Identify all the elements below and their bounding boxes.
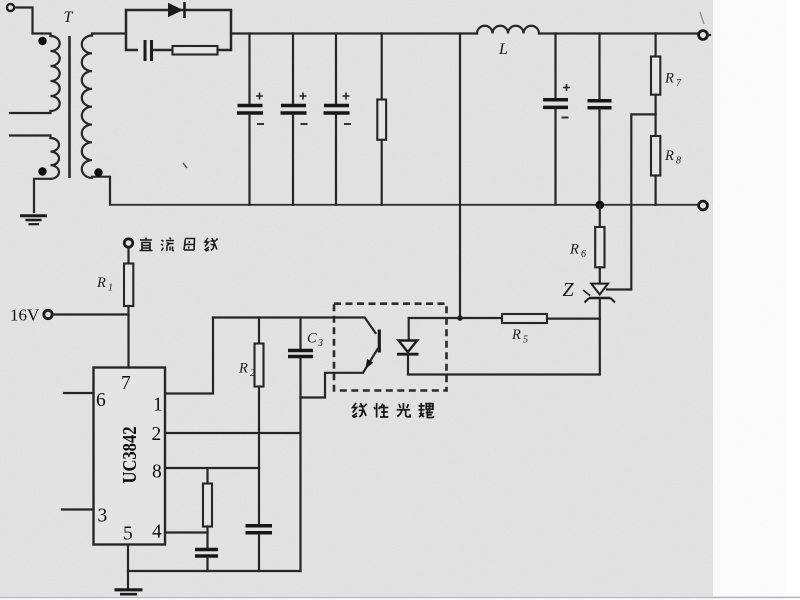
feedback wire from +V rail [459, 34, 461, 319]
resistor R6 [569, 205, 605, 284]
output capacitor 2 [588, 34, 612, 205]
label 线性光耦 (linear optocoupler) [352, 403, 433, 417]
svg-text:2: 2 [250, 368, 255, 379]
optocoupler LED wire bottom [409, 373, 600, 375]
pin 3 stub [62, 508, 94, 510]
线 [205, 238, 210, 251]
output capacitor (polarized) [543, 34, 570, 205]
shunt regulator Z [563, 279, 616, 375]
ground (left, below primary 2) [20, 216, 47, 225]
snubber resistor [173, 46, 218, 55]
直 [140, 238, 153, 251]
流 [161, 240, 164, 251]
svg-text:3: 3 [98, 506, 108, 527]
pin 6 stub [64, 392, 94, 394]
resistor R8 [651, 136, 681, 205]
pin4 wire [165, 531, 208, 533]
transformer secondary winding [82, 34, 126, 205]
svg-text:C: C [307, 331, 317, 347]
svg-text:UC3842: UC3842 [119, 427, 141, 484]
svg-text:T: T [64, 9, 74, 26]
16V terminal [10, 306, 129, 325]
stray mark near secondary [183, 163, 187, 168]
svg-text:7: 7 [121, 373, 131, 394]
IC ground rail [128, 545, 301, 572]
svg-text:1: 1 [153, 395, 163, 416]
svg-text:R: R [569, 242, 579, 258]
resistor R7 [651, 34, 682, 137]
filter capacitor C1 (polarized) [237, 34, 264, 205]
光 [397, 403, 410, 417]
svg-text:R: R [511, 327, 521, 343]
耦 [418, 403, 424, 417]
svg-text:2: 2 [152, 424, 162, 445]
polarity dot primary 1 [38, 37, 46, 45]
性 [374, 403, 380, 417]
snubber loop wires [126, 10, 231, 50]
svg-text:R: R [96, 275, 106, 291]
transformer primary winding 1 [10, 34, 60, 114]
snubber capacitor [138, 40, 152, 61]
transformer primary winding 2 [10, 136, 59, 213]
线 [352, 403, 357, 417]
snubber diode [168, 2, 185, 18]
svg-text:5: 5 [523, 335, 528, 346]
optocoupler phototransistor [213, 318, 379, 398]
pin2 wire [165, 432, 301, 434]
terminal AC input top-left [7, 4, 14, 11]
svg-text:6: 6 [96, 390, 106, 411]
svg-text:3: 3 [317, 338, 323, 349]
polarity dot primary 2 [38, 167, 46, 175]
resistor R2 [238, 318, 264, 525]
svg-text:5: 5 [123, 524, 133, 545]
svg-text:8: 8 [152, 462, 162, 483]
pin8 wire [165, 467, 259, 469]
svg-text:Z: Z [563, 279, 575, 301]
top rail: inductor to output terminal [539, 32, 699, 34]
svg-text:R: R [664, 148, 674, 164]
bottom rail (secondary return) [110, 204, 699, 206]
transformer core [68, 36, 71, 178]
svg-text:4: 4 [152, 522, 162, 543]
inductor L [477, 26, 539, 58]
timing capacitor CT [195, 550, 218, 572]
resistor R5 [409, 314, 600, 346]
polarity dot secondary [94, 168, 102, 176]
output terminal - [699, 201, 708, 210]
svg-text:6: 6 [581, 249, 586, 260]
svg-text:R: R [238, 361, 248, 377]
top rail: snubber to inductor [231, 32, 477, 34]
optocoupler LED [397, 318, 419, 375]
output terminal + [699, 31, 708, 40]
bleeder resistor [377, 34, 386, 205]
IC U1 UC3842 [94, 368, 166, 545]
junction node (R6 / output cap 2 / rail) [595, 201, 604, 210]
optocoupler dashed box [334, 304, 447, 391]
resistor R1 with DC bus terminal [96, 239, 133, 368]
timing resistor R3 [203, 468, 212, 548]
svg-text:1: 1 [108, 283, 113, 294]
capacitor C8 (on R2 branch) [246, 526, 273, 571]
divider tap wire to Z reference [607, 114, 656, 289]
ground (IC) [115, 571, 143, 594]
svg-text:16V: 16V [10, 306, 40, 325]
母 [184, 239, 195, 251]
svg-text:R: R [664, 71, 674, 87]
svg-text:L: L [498, 41, 508, 58]
label 直流母线 (DC bus) [140, 238, 218, 252]
svg-text:8: 8 [676, 156, 681, 167]
filter capacitor C2 (polarized) [281, 34, 308, 205]
wire pin1 to opto collector line [165, 318, 213, 394]
node feedback/R5 junction [457, 315, 463, 321]
wire from input terminal to primary top [14, 8, 42, 34]
C3 capacitor [288, 318, 323, 572]
filter capacitor C3f (polarized) [324, 34, 352, 205]
stray mark above output terminal [700, 12, 704, 24]
